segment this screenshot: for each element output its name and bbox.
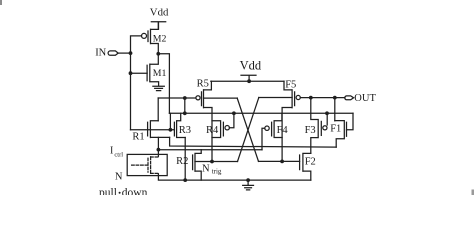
svg-text:R2: R2 <box>176 156 188 167</box>
wire OUT line <box>301 97 345 99</box>
node R3 source ground <box>183 178 187 182</box>
F5 gate bubble <box>296 95 300 99</box>
node tie top <box>183 96 187 100</box>
wire R3 gate stub to bus A <box>169 113 171 130</box>
wire R3 source to ground <box>184 138 186 181</box>
diagonal cross-couple B <box>238 98 259 162</box>
ground under M1 <box>153 86 164 90</box>
wire F5 mid tap to diagonal corner <box>259 97 292 99</box>
svg-text:R5: R5 <box>197 78 209 89</box>
node inverter output <box>156 52 160 56</box>
svg-text:F4: F4 <box>277 125 289 136</box>
svg-text:I: I <box>110 146 113 157</box>
svg-text:F2: F2 <box>305 157 316 168</box>
svg-text:IN: IN <box>95 48 106 59</box>
svg-text:OUT: OUT <box>354 93 376 104</box>
node tie bottom <box>183 111 187 115</box>
wire inverter output <box>158 54 169 114</box>
svg-text:F3: F3 <box>305 125 316 136</box>
wire R5 gate line <box>158 97 196 99</box>
Vdd left T-bar <box>151 22 165 30</box>
svg-text:F1: F1 <box>330 124 341 135</box>
svg-text:R3: R3 <box>179 125 191 136</box>
node center ground <box>246 178 250 182</box>
wire IN rail down <box>130 53 132 130</box>
wire M1 gate <box>131 72 148 74</box>
svg-text:pull: pull <box>99 187 117 195</box>
wire long line Y146 <box>170 137 337 147</box>
svg-text:M1: M1 <box>153 68 167 79</box>
node Vdd rail <box>247 79 251 83</box>
diagonal cross-couple A <box>237 98 258 161</box>
wire F1 drain riser to OUT <box>334 98 336 121</box>
M2 gate bubble <box>142 33 147 38</box>
node M1 gate junction <box>129 71 133 75</box>
svg-text:R4: R4 <box>206 125 219 136</box>
wire tie L1 to bus A <box>184 98 186 113</box>
Vdd center stem <box>241 75 256 81</box>
node F2 gate line F4 drain <box>280 160 284 164</box>
scan speck top-left corner <box>0 0 2 5</box>
pull-down network box <box>127 154 167 175</box>
node IN rail junction <box>129 51 133 55</box>
svg-text:trig: trig <box>212 167 222 175</box>
transistor R3 <box>174 113 185 137</box>
transistor F5 <box>282 81 295 161</box>
wire ground rail <box>158 176 310 181</box>
wire N_trig line <box>195 161 238 163</box>
wire R5 mid tap to diagonal corner <box>204 97 238 99</box>
hyphen dot in pull-down <box>119 192 121 194</box>
F4 gate bubble <box>265 126 269 130</box>
transistor R5 <box>202 81 213 161</box>
svg-text:Vdd: Vdd <box>150 6 169 18</box>
OUT port <box>345 96 354 100</box>
wire OUT elbow to F3 drain <box>311 98 318 154</box>
wire R4 gate elbow to bus A <box>229 113 234 127</box>
svg-text:R1: R1 <box>132 132 144 143</box>
svg-text:Vdd: Vdd <box>240 59 262 73</box>
ground center <box>243 180 254 190</box>
transistor F4 <box>272 113 283 137</box>
node F3 gate on bus A prime <box>325 111 329 115</box>
transistor R1 <box>148 121 170 138</box>
wire M2 gate to IN rail <box>131 36 142 53</box>
R5 gate bubble <box>196 96 200 100</box>
node OUT line right <box>333 96 337 100</box>
node R3 gate <box>169 128 173 132</box>
F3 gate bubble <box>323 126 327 130</box>
node OUT line left <box>309 96 313 100</box>
wire F2 gate line <box>259 160 300 162</box>
wire R1 source riser <box>157 98 159 121</box>
svg-text:M2: M2 <box>153 33 167 44</box>
R4 gate bubble <box>225 126 229 130</box>
wire Vdd rail <box>211 80 284 82</box>
svg-text:down: down <box>122 187 148 195</box>
svg-text:N: N <box>202 164 210 175</box>
dashed transistor in box <box>132 157 159 176</box>
wire F1 gate hook <box>347 113 354 129</box>
transistor M2 <box>148 22 158 54</box>
transistor R4 <box>212 121 223 138</box>
wire R1 drain down to box <box>157 137 159 156</box>
wire bus A <box>169 112 353 114</box>
svg-text:F5: F5 <box>285 79 296 90</box>
node R4 gate on bus A <box>232 111 236 115</box>
transistor M1 <box>147 54 159 86</box>
svg-text:ctrl: ctrl <box>114 152 123 159</box>
wire R3 gate line through R1 <box>131 129 175 131</box>
svg-text:N: N <box>115 171 123 182</box>
transistor F3 <box>320 121 322 135</box>
transistor F1 <box>335 121 347 148</box>
transistor F2 <box>300 153 311 180</box>
node N_trig R5 drain <box>210 160 214 164</box>
scan speck bottom-right corner <box>472 190 474 196</box>
transistor R2 <box>193 150 202 181</box>
wire IN to rail <box>118 52 130 54</box>
wire F4 gate elbow to bus A prime <box>262 128 265 150</box>
node R1 drain <box>157 148 161 152</box>
wire F3 gate riser to bus A prime <box>326 113 328 125</box>
IN port <box>108 51 118 55</box>
wire P_b R2 drain bus <box>158 149 262 151</box>
